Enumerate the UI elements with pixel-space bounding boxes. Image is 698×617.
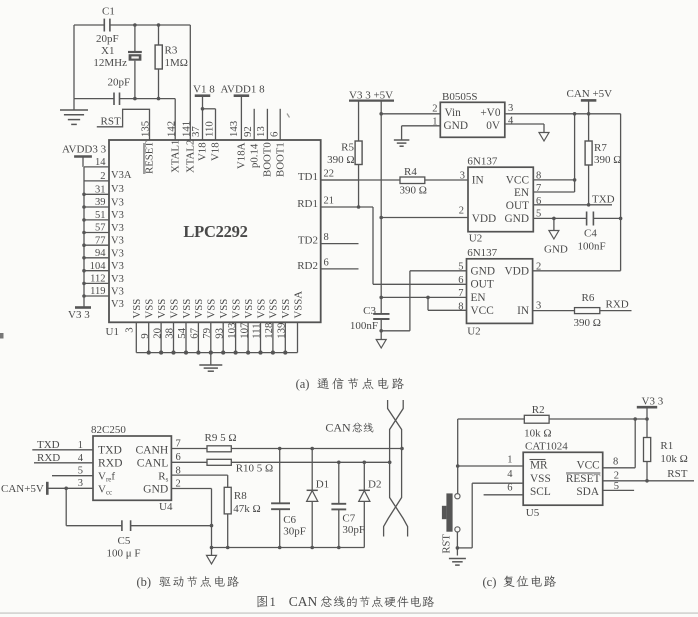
svg-text:CAN: CAN [289,594,318,609]
svg-text:6: 6 [176,452,181,463]
svg-text:R7: R7 [594,142,607,154]
svg-text:VSSA: VSSA [292,291,304,319]
svg-text:79: 79 [201,328,213,339]
svg-text:3: 3 [508,103,513,114]
svg-text:143: 143 [228,121,240,137]
svg-text:EN: EN [471,292,486,304]
svg-text:VSS: VSS [243,299,255,319]
svg-text:IN: IN [472,174,484,186]
svg-text:3: 3 [78,478,83,489]
svg-text:GND: GND [544,244,568,256]
svg-text:(a): (a) [296,377,310,391]
svg-text:XTAL2: XTAL2 [185,140,197,173]
svg-text:GND: GND [471,265,495,277]
svg-text:C5: C5 [118,535,131,547]
svg-text:47k Ω: 47k Ω [233,503,260,515]
svg-text:V3: V3 [111,198,124,209]
svg-text:VSS: VSS [206,299,218,319]
svg-text:RST: RST [442,534,453,554]
svg-text:U4: U4 [159,501,173,513]
svg-text:51: 51 [95,210,106,221]
svg-text:VCC: VCC [576,460,599,472]
svg-text:Vin: Vin [445,107,462,119]
svg-text:V3: V3 [111,236,124,247]
svg-text:RD1: RD1 [297,198,318,210]
svg-text:RD2: RD2 [297,260,318,272]
svg-text:390 Ω: 390 Ω [574,317,601,329]
svg-text:R4: R4 [404,166,417,178]
svg-text:6N137: 6N137 [467,247,497,259]
svg-text:V3: V3 [111,274,124,285]
svg-text:112: 112 [90,274,105,285]
svg-text:390 Ω: 390 Ω [594,154,621,166]
svg-text:94: 94 [95,248,106,259]
svg-text:V18A: V18A [236,142,248,169]
svg-text:+V0: +V0 [480,107,501,119]
svg-text:37: 37 [190,126,202,137]
svg-text:V3: V3 [111,299,124,310]
svg-text:(b): (b) [137,575,152,589]
svg-text:C7: C7 [342,513,355,525]
svg-text:VDD: VDD [472,213,496,225]
svg-text:VSS: VSS [218,299,230,319]
svg-text:IN: IN [517,305,529,317]
svg-text:30pF: 30pF [283,526,306,538]
svg-text:4: 4 [507,469,513,480]
svg-text:4: 4 [508,116,514,127]
svg-text:20: 20 [151,328,163,339]
svg-text:104: 104 [90,261,107,272]
svg-text:EN: EN [514,187,529,199]
svg-text:4: 4 [78,453,84,464]
svg-text:(c): (c) [483,575,497,589]
svg-text:92: 92 [242,126,254,137]
svg-text:VSS: VSS [268,299,280,319]
svg-text:RST: RST [101,115,121,127]
svg-text:V3: V3 [111,287,124,298]
svg-text:GND: GND [505,213,529,225]
svg-text:CANL: CANL [137,456,169,469]
svg-text:390 Ω: 390 Ω [327,154,354,166]
svg-text:77: 77 [95,235,106,246]
svg-text:12MHz: 12MHz [93,57,127,69]
svg-text:1: 1 [507,455,512,466]
svg-text:VSS: VSS [230,299,242,319]
svg-text:100nF: 100nF [578,241,606,253]
svg-text:BOOT1: BOOT1 [274,142,286,177]
svg-text:C4: C4 [584,228,597,240]
svg-text:U5: U5 [526,507,540,519]
svg-text:VSS: VSS [530,473,551,485]
svg-text:82C250: 82C250 [91,424,126,436]
svg-text:RESET: RESET [144,141,156,174]
svg-text:p0.14: p0.14 [248,143,260,168]
svg-text:RXD: RXD [606,299,629,311]
svg-text:RXD: RXD [98,456,122,469]
svg-text:VSS: VSS [255,299,267,319]
svg-text:67: 67 [189,327,201,338]
svg-text:6N137: 6N137 [467,156,497,168]
svg-text:OUT: OUT [471,279,494,291]
svg-text:R2: R2 [532,404,545,416]
svg-text:5: 5 [78,466,83,477]
svg-text:R8: R8 [234,490,247,502]
svg-text:V3 3: V3 3 [68,309,90,321]
svg-text:LPC2292: LPC2292 [183,222,247,241]
svg-text:D2: D2 [368,479,381,491]
svg-text:13: 13 [255,126,267,137]
svg-text:D1: D1 [316,479,329,491]
svg-text:RST: RST [667,468,687,480]
svg-text:V3: V3 [111,210,124,221]
svg-text:139: 139 [276,323,288,339]
svg-text:GND: GND [143,483,168,496]
svg-text:X1: X1 [101,45,114,57]
svg-text:GND: GND [444,120,468,132]
svg-text:V1 8: V1 8 [193,84,215,96]
svg-text:119: 119 [90,286,105,297]
svg-text:VSS: VSS [156,299,168,319]
svg-text:XTAL1: XTAL1 [169,140,181,173]
svg-text:R1: R1 [660,440,673,452]
svg-text:VSS: VSS [181,299,193,319]
svg-text:0V: 0V [486,120,501,132]
svg-text:R6: R6 [582,292,595,304]
svg-text:3: 3 [536,301,541,312]
svg-text:111: 111 [251,323,263,338]
svg-text:U2: U2 [469,233,482,245]
svg-text:MR: MR [530,460,548,472]
svg-text:R9 5 Ω: R9 5 Ω [205,432,237,444]
svg-text:R3: R3 [165,45,178,57]
svg-text:57: 57 [95,223,106,234]
svg-text:128: 128 [263,323,275,339]
svg-text:OUT: OUT [506,200,529,212]
svg-text:V18: V18 [197,142,209,161]
svg-text:30pF: 30pF [342,524,365,536]
svg-text:SDA: SDA [576,486,599,498]
svg-text:390 Ω: 390 Ω [400,185,427,197]
svg-text:100 μ F: 100 μ F [107,548,141,560]
svg-text:CAN +5V: CAN +5V [567,88,613,100]
svg-text:93: 93 [213,328,225,339]
svg-text:10k Ω: 10k Ω [524,428,551,440]
svg-text:U2: U2 [467,326,480,338]
svg-text:1: 1 [270,595,276,609]
svg-text:AVDD1 8: AVDD1 8 [221,84,266,96]
svg-text:V3: V3 [111,261,124,272]
svg-text:135: 135 [140,121,152,137]
svg-text:C1: C1 [102,5,115,17]
svg-text:C3: C3 [363,305,376,317]
svg-text:2: 2 [432,104,437,115]
svg-text:2: 2 [614,471,619,482]
svg-text:BOOT0: BOOT0 [262,142,274,177]
svg-text:V3: V3 [111,248,124,259]
svg-text:R5: R5 [341,142,354,154]
svg-text:38: 38 [164,328,176,339]
svg-text:VDD: VDD [505,265,529,277]
svg-text:TD2: TD2 [298,235,318,247]
svg-text:3: 3 [124,327,136,332]
svg-text:V3: V3 [111,223,124,234]
svg-text:VSS: VSS [144,299,156,319]
svg-text:110: 110 [203,121,215,137]
svg-text:6: 6 [507,483,512,494]
svg-text:CAN+5V: CAN+5V [1,483,44,495]
svg-text:VSS: VSS [193,299,205,319]
svg-text:14: 14 [95,157,106,168]
svg-text:6: 6 [269,131,281,137]
svg-text:C6: C6 [283,514,296,526]
svg-text:V3A: V3A [111,170,132,181]
svg-text:U1: U1 [106,326,119,338]
svg-text:10k Ω: 10k Ω [660,453,687,465]
svg-text:20pF: 20pF [108,77,131,89]
svg-text:1: 1 [78,440,83,451]
svg-text:9: 9 [139,333,151,338]
svg-text:CAT1024: CAT1024 [525,441,568,453]
svg-text:V3: V3 [111,184,124,195]
svg-text:TD1: TD1 [298,171,318,183]
svg-text:22: 22 [324,169,335,180]
svg-text:R10 5 Ω: R10 5 Ω [236,463,274,475]
svg-text:103: 103 [226,323,238,339]
svg-text:2: 2 [176,478,181,489]
svg-text:39: 39 [95,197,106,208]
svg-text:2: 2 [100,171,105,182]
svg-text:100nF: 100nF [350,320,378,332]
svg-text:107: 107 [238,322,250,339]
svg-text:20pF: 20pF [96,33,119,45]
svg-text:6: 6 [324,257,329,268]
svg-text:AVDD3 3: AVDD3 3 [62,143,107,155]
svg-text:SCL: SCL [530,486,551,498]
svg-text:VCC: VCC [506,174,529,186]
svg-text:VSS: VSS [168,299,180,319]
svg-text:2: 2 [459,206,464,217]
svg-text:TXD: TXD [98,443,122,456]
svg-text:142: 142 [166,121,178,137]
svg-text:TXD: TXD [592,193,615,205]
svg-text:VSS: VSS [280,299,292,319]
svg-text:CAN: CAN [325,421,351,435]
svg-text:RESET: RESET [566,473,601,485]
svg-text:6: 6 [458,275,463,286]
svg-text:54: 54 [176,327,188,338]
svg-text:21: 21 [324,196,335,207]
svg-text:CANH: CANH [135,443,168,456]
svg-text:V18: V18 [210,142,222,161]
svg-text:B0505S: B0505S [442,91,477,103]
svg-text:VCC: VCC [471,305,494,317]
svg-text:VSS: VSS [131,299,143,319]
svg-text:V3 3: V3 3 [642,396,664,408]
svg-text:31: 31 [95,185,106,196]
svg-text:8: 8 [324,232,329,243]
svg-text:1MΩ: 1MΩ [165,57,188,69]
svg-text:8: 8 [613,457,618,468]
